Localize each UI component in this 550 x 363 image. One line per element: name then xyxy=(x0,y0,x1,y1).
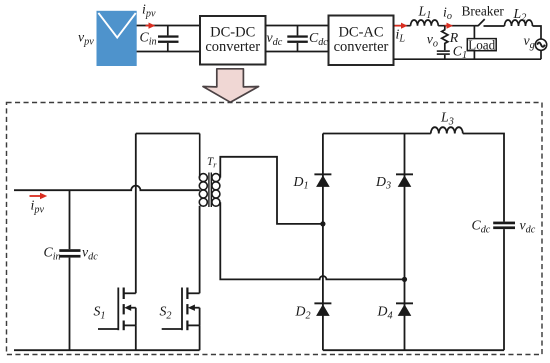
wire link bottom xyxy=(266,51,329,53)
svg-text:D3: D3 xyxy=(375,174,391,192)
wire L3 to output leg xyxy=(463,134,504,222)
svg-text:ipv: ipv xyxy=(142,2,156,20)
mosfet S1 xyxy=(98,288,136,351)
capacitor C1 xyxy=(437,50,450,59)
wire S1 drain riser xyxy=(135,134,137,294)
wire breaker to L2 xyxy=(484,25,505,27)
Load block xyxy=(467,37,496,52)
svg-text:D1: D1 xyxy=(293,174,309,192)
svg-text:vpv: vpv xyxy=(78,30,94,48)
node secondary bottom junction xyxy=(402,277,407,282)
svg-text:vdc: vdc xyxy=(82,245,98,263)
DC-AC converter block xyxy=(329,16,394,66)
svg-text:S1: S1 xyxy=(94,304,106,322)
transformer Tr secondary winding xyxy=(212,174,220,207)
svg-text:vg: vg xyxy=(524,33,535,51)
wire input with hop xyxy=(14,186,200,191)
diode D2 xyxy=(314,302,331,316)
wire link top xyxy=(266,25,329,27)
wire PV bottom xyxy=(137,51,200,53)
current arrow i_pv top xyxy=(146,23,156,29)
wire inverter output xyxy=(394,25,411,27)
transformer Tr primary winding xyxy=(199,134,207,207)
AC source v_g xyxy=(535,39,546,59)
svg-text:ipv: ipv xyxy=(31,198,45,216)
svg-text:Load: Load xyxy=(468,37,496,52)
svg-text:vdc: vdc xyxy=(267,30,283,48)
svg-text:iL: iL xyxy=(396,27,406,45)
wire bridge right leg xyxy=(404,134,406,351)
svg-text:S2: S2 xyxy=(160,304,172,322)
svg-text:L1: L1 xyxy=(418,3,432,21)
svg-text:Cdc: Cdc xyxy=(472,218,491,236)
wire Load to return xyxy=(473,51,475,60)
DC-DC converter block xyxy=(200,16,266,65)
svg-text:Cdc: Cdc xyxy=(309,30,328,48)
rail input bottom xyxy=(14,349,200,351)
wire bridge left leg xyxy=(322,134,324,351)
inductor L2 xyxy=(505,20,533,26)
svg-text:D2: D2 xyxy=(295,304,311,322)
svg-text:vo: vo xyxy=(427,32,438,50)
svg-text:Cin: Cin xyxy=(44,245,61,263)
current arrow i_o xyxy=(445,23,454,29)
current arrow i_L xyxy=(395,23,408,29)
svg-text:io: io xyxy=(443,4,452,22)
svg-text:converter: converter xyxy=(334,39,389,55)
rail output bottom xyxy=(323,349,504,351)
breaker blade xyxy=(478,19,485,26)
capacitor C_in top xyxy=(158,26,179,52)
dashed enclosure xyxy=(7,103,543,355)
rail bridge top xyxy=(323,133,431,135)
PV panel xyxy=(97,11,137,66)
diode D3 xyxy=(396,173,413,187)
svg-text:L3: L3 xyxy=(440,110,454,128)
wire L2 to source xyxy=(533,26,542,39)
rail primary top xyxy=(136,133,200,135)
wire L1 to node xyxy=(438,25,475,27)
svg-text:vdc: vdc xyxy=(520,218,536,236)
diode D4 xyxy=(396,302,413,316)
svg-text:D4: D4 xyxy=(377,304,393,322)
wire PV top xyxy=(137,25,200,27)
current arrow i_pv bottom xyxy=(30,193,48,200)
capacitor C_in bottom xyxy=(59,190,80,350)
wire node to blade xyxy=(475,25,478,27)
wire secondary bottom with hop xyxy=(220,202,404,279)
diode D1 xyxy=(314,173,331,187)
svg-text:converter: converter xyxy=(205,39,260,55)
block arrow down xyxy=(203,69,259,103)
transformer core xyxy=(209,173,211,208)
resistor R xyxy=(442,26,448,51)
capacitor C_dc top xyxy=(287,26,308,52)
mosfet S2 xyxy=(162,288,200,351)
wire S2 drain riser xyxy=(199,206,201,293)
capacitor C_dc bottom xyxy=(493,222,515,351)
svg-text:Cin: Cin xyxy=(140,30,157,48)
svg-text:Breaker: Breaker xyxy=(462,4,505,19)
svg-text:Tr: Tr xyxy=(207,156,217,169)
inductor L1 xyxy=(411,20,439,26)
node secondary top junction xyxy=(320,221,325,226)
wire node to Load xyxy=(473,26,475,39)
inductor L3 xyxy=(431,127,463,133)
wire bottom return xyxy=(394,58,542,60)
wire secondary top to bridge xyxy=(220,157,323,224)
